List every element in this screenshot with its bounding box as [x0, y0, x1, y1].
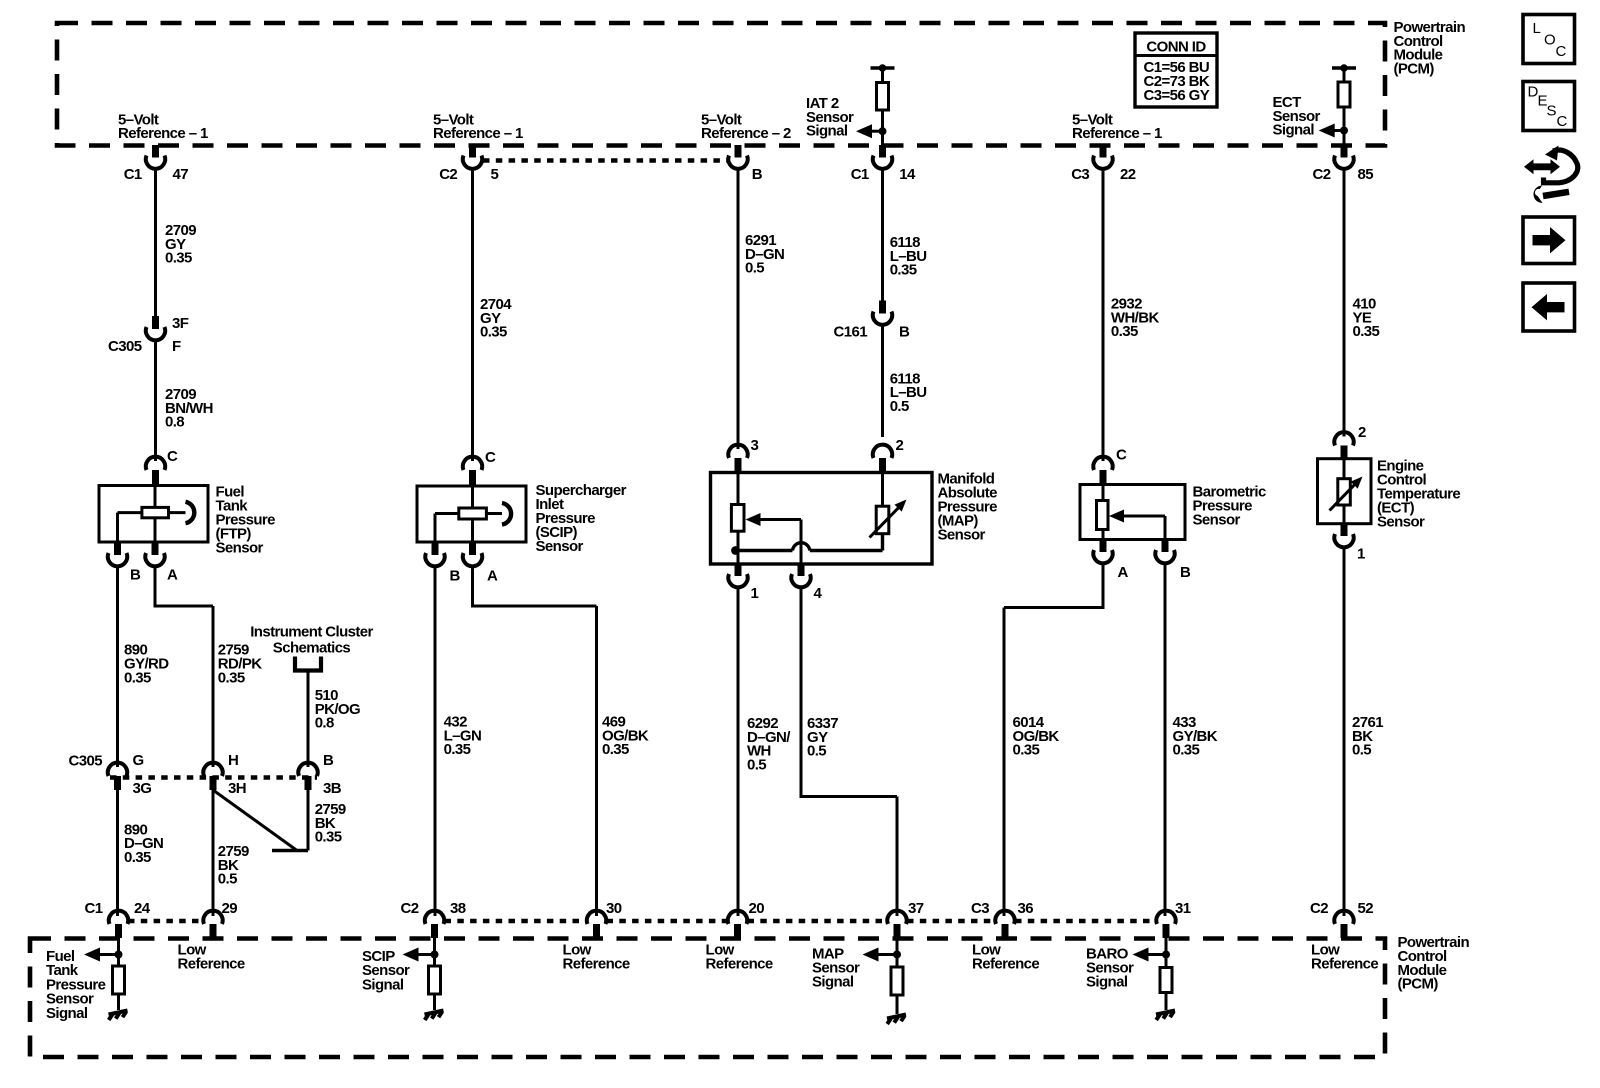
svg-text:3F: 3F — [172, 315, 189, 332]
net label IAT 2 Sensor Signal — [806, 95, 854, 140]
svg-text:0.5: 0.5 — [1352, 742, 1371, 759]
ground BARO input — [1156, 1011, 1175, 1021]
SCIP signal label — [362, 948, 410, 993]
svg-text:0.35: 0.35 — [165, 250, 192, 267]
svg-text:Signal: Signal — [46, 1005, 88, 1022]
svg-text:3G: 3G — [133, 780, 152, 797]
PCM bottom connector pin 37 — [887, 900, 923, 938]
PCM top module dashed box — [57, 23, 1385, 146]
resistor MAP input — [891, 967, 903, 995]
PCM top connector C2 pin 5 — [439, 145, 498, 183]
svg-text:B: B — [899, 324, 910, 341]
dotted connector line C2-5 to B — [483, 158, 727, 163]
svg-text:0.35: 0.35 — [890, 262, 917, 279]
svg-text:C2: C2 — [1313, 166, 1331, 183]
PCM bottom connector pin 31 — [1156, 900, 1190, 938]
MAP sensor pin 3 — [728, 437, 758, 474]
forward arrow icon box — [1523, 217, 1575, 264]
PCM bottom connector C2 pin 38 — [401, 900, 466, 938]
svg-text:0.8: 0.8 — [315, 715, 334, 732]
net label ECT Sensor Signal — [1273, 94, 1321, 139]
FTP pressure port crescent — [186, 502, 195, 523]
BARO sensor pin A — [1093, 540, 1128, 582]
SCIP internal wire — [471, 486, 474, 542]
wire 6291 D-GN — [737, 169, 740, 450]
wire 2759 BK 0.5 (H to 29) — [212, 790, 215, 916]
svg-text:47: 47 — [173, 166, 189, 183]
dotted connector line 24-29 — [128, 919, 203, 924]
ECT signal arrow — [1319, 124, 1348, 138]
ECT thermistor element — [1338, 479, 1351, 505]
svg-text:G: G — [133, 752, 144, 769]
svg-text:CONN ID: CONN ID — [1146, 39, 1206, 56]
svg-text:Sensor: Sensor — [938, 527, 986, 544]
svg-text:C1: C1 — [851, 166, 869, 183]
label wire 6291 D-GN 0.5 — [745, 232, 784, 277]
CONN ID table — [1135, 33, 1217, 107]
SCIP sensor pin B — [425, 542, 460, 585]
svg-text:1: 1 — [751, 585, 759, 602]
IAT2 pull-up feed bar — [871, 64, 895, 72]
svg-text:O: O — [1544, 32, 1556, 49]
wire 433 GY/BK — [1164, 563, 1167, 916]
MAP signal wire and arrow — [863, 938, 902, 967]
BARO potentiometer element — [1097, 501, 1109, 530]
MAP potentiometer wire — [737, 473, 740, 565]
PCM top connector C1 pin 47 — [124, 145, 189, 183]
svg-text:Reference – 1: Reference – 1 — [433, 125, 523, 142]
svg-text:Signal: Signal — [1086, 974, 1128, 991]
svg-text:4: 4 — [814, 585, 823, 602]
FTP signal wire and arrow — [84, 938, 123, 966]
LOC icon box — [1523, 15, 1575, 64]
PCM bottom connector pin 29 — [203, 900, 237, 938]
svg-text:0.35: 0.35 — [218, 669, 245, 686]
ECT sensor label — [1377, 458, 1460, 531]
BARO sensor pin B — [1155, 540, 1191, 582]
wire 6118 L-BU 0.35 — [881, 169, 884, 301]
svg-text:A: A — [1118, 564, 1129, 581]
MAP potentiometer element — [731, 505, 744, 532]
dotted connector line 38-30-20-37-36-31 — [445, 919, 1157, 924]
label wire 6292 D-GN/WH 0.5 — [747, 715, 791, 773]
label wire 469 OG/BK 0.35 — [602, 714, 649, 759]
MAP internal bus with hop — [731, 534, 882, 555]
svg-text:Reference – 1: Reference – 1 — [1072, 125, 1162, 142]
net label 5-Volt Reference - 1 (C2-5) — [433, 111, 523, 142]
svg-text:C1: C1 — [85, 900, 103, 917]
svg-text:C: C — [1116, 447, 1127, 464]
DESC icon box — [1523, 82, 1575, 131]
label wire 890 D-GN 0.35 — [124, 821, 163, 866]
wire 410 YE — [1343, 169, 1346, 437]
wire resistor to pin 85 — [1343, 107, 1346, 150]
svg-text:Reference: Reference — [178, 956, 245, 973]
SCIP sensor pin A — [463, 542, 498, 585]
PCM bottom module dashed box — [30, 939, 1385, 1058]
svg-text:31: 31 — [1175, 900, 1191, 917]
svg-text:C3=56 GY: C3=56 GY — [1144, 87, 1210, 104]
svg-text:5: 5 — [491, 166, 499, 183]
C305 header labels — [69, 753, 103, 770]
FTP signal label — [46, 948, 106, 1022]
wire 6292 D-GN/WH — [737, 587, 740, 916]
Low Reference label (29) — [178, 942, 245, 973]
wire 890 D-GN — [116, 790, 119, 916]
wire resistor to pin 14 — [881, 110, 884, 150]
svg-text:Reference – 1: Reference – 1 — [118, 125, 208, 142]
svg-text:24: 24 — [134, 900, 151, 917]
svg-text:36: 36 — [1018, 900, 1034, 917]
svg-text:C2: C2 — [1310, 900, 1328, 917]
connector C305 pin B — [298, 752, 341, 797]
svg-text:Sensor: Sensor — [216, 540, 264, 557]
svg-text:B: B — [130, 567, 141, 584]
svg-text:Reference: Reference — [563, 956, 630, 973]
MAP sensor pin 2 — [873, 437, 904, 474]
svg-text:38: 38 — [450, 900, 466, 917]
BARO signal label — [1086, 946, 1134, 991]
PCM bottom connector C1 pin 24 — [85, 900, 151, 938]
inline connector C161 pin B — [834, 301, 910, 341]
label wire 2709 BN/WH 0.8 — [165, 386, 213, 431]
MAP transducer diagonal arrow — [870, 500, 907, 538]
PCM bottom connector C3 pin 36 — [971, 900, 1033, 938]
resistor IAT2 pull-up — [877, 83, 889, 111]
wire to ground — [896, 995, 899, 1014]
svg-text:0.35: 0.35 — [1353, 323, 1380, 340]
PCM top connector pin B — [728, 145, 762, 183]
svg-text:0.5: 0.5 — [890, 398, 909, 415]
label wire 410 YE 0.35 — [1353, 296, 1380, 341]
svg-text:Signal: Signal — [362, 976, 404, 993]
label wire 2759 BK 0.5 — [218, 843, 249, 888]
svg-text:A: A — [167, 567, 178, 584]
wire to ground — [117, 994, 120, 1010]
FTP pressure port link — [169, 511, 186, 514]
svg-text:C2: C2 — [401, 900, 419, 917]
wire to ground — [1165, 993, 1168, 1011]
PCM bottom connector C2 pin 52 — [1310, 900, 1373, 938]
label wire 6118 L-BU 0.35 — [890, 234, 927, 279]
FTP sensor label — [216, 484, 276, 557]
wire 6014 OG/BK (A to 36) — [1004, 563, 1105, 916]
svg-text:1: 1 — [1357, 546, 1365, 563]
connector C305 pin G — [108, 752, 152, 797]
svg-text:Signal: Signal — [1273, 122, 1315, 139]
net label 5-Volt Reference - 1 (C3-22) — [1072, 111, 1162, 142]
svg-text:14: 14 — [899, 166, 916, 183]
resistor BARO input — [1160, 968, 1172, 993]
wire 6337 GY (4 to 37) — [800, 587, 898, 916]
MAP transducer element — [876, 506, 889, 534]
diagnostic reroute icon — [1524, 146, 1578, 184]
SCIP pressure port crescent — [502, 503, 511, 525]
svg-text:C3: C3 — [971, 900, 989, 917]
svg-text:0.35: 0.35 — [1013, 742, 1040, 759]
PCM bottom label — [1398, 934, 1470, 992]
svg-text:0.35: 0.35 — [480, 324, 507, 341]
SCIP signal wire and arrow — [403, 938, 439, 966]
svg-text:52: 52 — [1358, 900, 1374, 917]
wire 890 GY/RD — [116, 566, 119, 767]
FTP element left tap — [118, 513, 142, 542]
svg-text:30: 30 — [606, 900, 622, 917]
FTP internal wire through element — [154, 486, 157, 543]
PCM top connector C2 pin 85 — [1313, 145, 1374, 183]
label wire 510 PK/OG 0.8 — [315, 687, 360, 732]
svg-text:S: S — [1547, 103, 1557, 120]
back arrow icon box — [1523, 283, 1575, 331]
svg-text:C161: C161 — [834, 324, 868, 341]
svg-text:C: C — [1557, 113, 1568, 130]
label wire 2759 RD/PK 0.35 — [218, 642, 262, 687]
svg-text:Instrument Cluster: Instrument Cluster — [250, 624, 373, 641]
wire 469 OG/BK (A to 30) — [471, 566, 597, 916]
svg-text:B: B — [1180, 564, 1191, 581]
connector C305 dashed line — [110, 775, 317, 780]
svg-text:0.5: 0.5 — [747, 756, 766, 773]
svg-text:C305: C305 — [69, 753, 103, 770]
svg-text:Sensor: Sensor — [1377, 514, 1425, 531]
wire 2759 BK from B — [307, 790, 310, 851]
MAP sensor label — [938, 471, 998, 544]
resistor ECT pull-up — [1338, 82, 1350, 107]
svg-text:Reference: Reference — [1311, 956, 1378, 973]
MAP signal label — [812, 946, 860, 991]
Low Reference label (52) — [1311, 942, 1378, 973]
ground SCIP input — [425, 1011, 444, 1021]
svg-text:Sensor: Sensor — [536, 538, 584, 555]
BARO sensor box — [1080, 485, 1185, 540]
label wire 890 GY/RD 0.35 — [124, 642, 169, 687]
svg-text:C3: C3 — [1071, 166, 1089, 183]
svg-text:C1: C1 — [124, 166, 142, 183]
svg-text:Reference – 2: Reference – 2 — [701, 125, 791, 142]
wire 2709 BN/WH — [154, 340, 157, 461]
SCIP sensor pin C — [463, 449, 496, 486]
svg-text:0.5: 0.5 — [745, 260, 764, 277]
svg-text:2: 2 — [896, 437, 904, 454]
wire 432 L-GN — [434, 566, 437, 916]
svg-text:C: C — [1556, 43, 1567, 60]
svg-text:0.35: 0.35 — [315, 829, 342, 846]
label wire 2761 BK 0.5 — [1352, 714, 1383, 759]
wire to ground — [433, 994, 436, 1010]
svg-text:B: B — [752, 166, 763, 183]
ECT thermistor wire — [1343, 459, 1346, 524]
svg-text:0.35: 0.35 — [602, 741, 629, 758]
svg-text:C: C — [485, 449, 496, 466]
ground FTP input — [109, 1011, 128, 1021]
label wire 6118 L-BU 0.5 — [890, 370, 927, 415]
MAP sensor pin 4 — [791, 564, 822, 602]
svg-text:H: H — [228, 752, 238, 769]
svg-text:85: 85 — [1358, 166, 1374, 183]
label wire 2932 WH/BK 0.35 — [1111, 296, 1160, 341]
svg-text:20: 20 — [749, 900, 765, 917]
wire 2932 WH/BK — [1102, 169, 1105, 462]
svg-text:B: B — [323, 752, 334, 769]
svg-text:B: B — [450, 568, 461, 585]
FTP sensor pin C — [146, 448, 178, 486]
svg-text:Reference: Reference — [972, 956, 1039, 973]
BARO potentiometer wire — [1102, 485, 1105, 540]
label wire 2759 BK 0.35 — [315, 801, 346, 846]
svg-text:0.8: 0.8 — [165, 414, 184, 431]
SCIP element left tap — [435, 514, 459, 543]
inline connector C305 pin F — [108, 315, 189, 355]
svg-text:Reference: Reference — [706, 956, 773, 973]
instrument cluster off-page bracket — [295, 657, 321, 671]
ECT pull-up feed bar — [1332, 64, 1356, 72]
svg-text:3H: 3H — [228, 780, 246, 797]
wire 2709 GY — [154, 169, 157, 317]
svg-text:0.35: 0.35 — [1173, 742, 1200, 759]
MAP sensor pin 1 — [728, 564, 758, 602]
wire feed to resistor — [881, 68, 884, 83]
svg-text:Signal: Signal — [812, 974, 854, 991]
connector C305 pin H — [203, 752, 246, 797]
SCIP sensing element — [459, 508, 487, 519]
svg-text:L: L — [1533, 20, 1541, 37]
ECT sensor box — [1318, 459, 1372, 524]
svg-text:22: 22 — [1120, 166, 1136, 183]
svg-text:Schematics: Schematics — [273, 640, 351, 657]
ECT sensor pin 2 — [1334, 424, 1366, 460]
svg-text:C: C — [167, 448, 178, 465]
MAP transducer wire to pin 2 — [881, 474, 884, 506]
PCM top label — [1394, 19, 1466, 77]
wire 2759 RD/PK (A to H) — [154, 566, 214, 767]
svg-text:C2: C2 — [439, 166, 457, 183]
IAT2 signal arrow — [856, 124, 887, 138]
svg-text:C305: C305 — [108, 338, 142, 355]
Low Reference label (30) — [563, 942, 630, 973]
net label 5-Volt Reference - 2 (B) — [701, 111, 791, 142]
ground MAP input — [887, 1015, 906, 1025]
svg-text:Signal: Signal — [806, 123, 848, 140]
svg-text:0.5: 0.5 — [807, 743, 826, 760]
svg-text:0.35: 0.35 — [124, 849, 151, 866]
wrench icon — [1533, 186, 1569, 204]
ECT thermistor diagonal arrow — [1330, 477, 1363, 511]
svg-text:29: 29 — [222, 900, 238, 917]
PCM bottom connector pin 20 — [728, 900, 764, 938]
MAP wiper arrow — [746, 513, 802, 564]
svg-text:2: 2 — [1358, 424, 1366, 441]
wire 6118 L-BU 0.5 — [881, 325, 884, 437]
svg-text:0.35: 0.35 — [124, 669, 151, 686]
label wire 432 L-GN 0.35 — [444, 714, 482, 759]
svg-text:(PCM): (PCM) — [1398, 976, 1439, 993]
Low Reference label (20) — [706, 942, 773, 973]
PCM top connector C1 pin 14 — [851, 145, 916, 183]
net label 5-Volt Reference - 1 (C1-47) — [118, 111, 208, 142]
FTP sensor box — [99, 486, 208, 543]
wire 2704 GY — [471, 169, 474, 462]
PCM bottom connector pin 30 — [587, 900, 622, 938]
wire 2761 BK — [1343, 547, 1346, 916]
Low Reference label (36) — [972, 942, 1039, 973]
wire 2759 BK splice diagonal — [213, 790, 308, 851]
svg-text:0.5: 0.5 — [218, 871, 237, 888]
label wire 2704 GY 0.35 — [480, 296, 512, 341]
svg-text:0.35: 0.35 — [444, 741, 471, 758]
wire 510 PK/OG — [307, 671, 310, 768]
svg-text:F: F — [172, 338, 181, 355]
label wire 6337 GY 0.5 — [807, 715, 838, 760]
svg-text:0.35: 0.35 — [1111, 323, 1138, 340]
BARO wiper arrow — [1109, 510, 1165, 540]
SCIP sensor label — [536, 482, 627, 555]
label wire 433 GY/BK 0.35 — [1173, 714, 1218, 759]
FTP sensor pin A — [145, 542, 178, 584]
FTP sensor pin B — [108, 542, 141, 584]
label wire 2709 GY 0.35 — [165, 222, 196, 267]
SCIP sensor box — [417, 486, 526, 542]
FTP sensing element — [142, 507, 169, 517]
SCIP pressure port link — [486, 512, 502, 515]
svg-text:3: 3 — [751, 437, 759, 454]
BARO sensor pin C — [1093, 447, 1127, 486]
svg-text:37: 37 — [908, 900, 924, 917]
BARO signal wire and arrow — [1133, 938, 1171, 968]
svg-text:Sensor: Sensor — [1193, 512, 1241, 529]
ECT sensor pin 1 — [1334, 524, 1365, 563]
MAP sensor box — [711, 473, 933, 565]
svg-text:A: A — [487, 568, 498, 585]
wire feed to resistor — [1343, 68, 1346, 82]
svg-text:3B: 3B — [323, 780, 342, 797]
resistor SCIP input — [429, 966, 441, 994]
Instrument Cluster Schematics label — [250, 624, 373, 657]
resistor FTP input — [113, 966, 125, 994]
PCM top connector C3 pin 22 — [1071, 145, 1136, 183]
svg-text:(PCM): (PCM) — [1394, 60, 1435, 77]
label wire 6014 OG/BK 0.35 — [1013, 714, 1060, 759]
BARO sensor label — [1193, 484, 1266, 529]
